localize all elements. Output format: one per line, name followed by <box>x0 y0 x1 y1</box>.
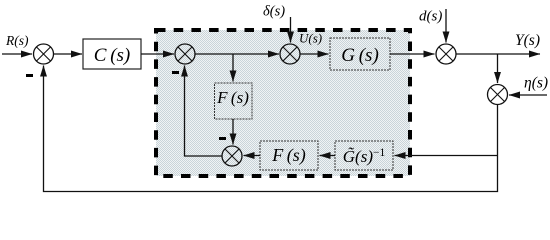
summing junction S4 <box>436 44 456 64</box>
wire F(s) bottom into S6 <box>244 155 261 157</box>
svg-text:F (s): F (s) <box>271 145 306 166</box>
wire G(s) to summing junction S4 <box>390 53 435 55</box>
wire delta(s) into summing junction S3 <box>290 17 292 43</box>
svg-text:F (s): F (s) <box>216 88 249 107</box>
summing junction S1 <box>34 44 54 64</box>
block F(s) bottom <box>260 141 318 170</box>
label delta(s) <box>263 4 285 20</box>
svg-text:R(s): R(s) <box>5 33 29 48</box>
block Gtilde(s)^-1 <box>335 141 393 170</box>
svg-text:G (s): G (s) <box>341 45 379 66</box>
label d(s) <box>419 9 442 25</box>
wire eta(s) into summing junction S5 <box>509 94 547 96</box>
wire F(s) middle down to summing junction S6 <box>232 119 234 145</box>
svg-text:δ(s): δ(s) <box>263 4 285 20</box>
wire S3 to block G(s) <box>300 53 329 55</box>
wire branch down to block F(s) middle <box>232 54 234 82</box>
svg-text:Y(s): Y(s) <box>515 32 540 49</box>
wire S1 to block C(s) <box>54 53 83 55</box>
svg-text:η(s): η(s) <box>524 75 548 92</box>
wire branch from feedback vertical into Gtilde block <box>395 155 498 157</box>
label Y(s) <box>515 32 540 49</box>
svg-text:d(s): d(s) <box>419 9 442 25</box>
wire d(s) into summing junction S4 <box>445 9 447 43</box>
wire R(s) input to summing junction S1 <box>2 53 32 55</box>
wire Gtilde into F(s) bottom <box>320 155 336 157</box>
summing junction S2 <box>175 44 195 64</box>
label U(s) <box>299 31 322 46</box>
minus sign at S1 <box>26 74 33 77</box>
label R(s) <box>5 33 29 48</box>
wire S2 to summing junction S3 <box>195 53 279 55</box>
block C(s) <box>83 39 141 69</box>
wire S4 to output Y(s) <box>456 53 540 55</box>
block G(s) <box>330 38 390 70</box>
summing junction S6 <box>222 146 242 166</box>
wire branch down to summing junction S5 <box>497 54 499 83</box>
wire S6 output left and up into S2 <box>185 66 223 157</box>
wire S5 down, feedback bottom run, and up into S1 <box>44 66 498 192</box>
dashed box (inner-loop / IMC region) <box>156 30 410 176</box>
block F(s) middle <box>215 83 253 119</box>
label eta(s) <box>524 75 548 92</box>
minus sign at S2 <box>172 71 179 74</box>
svg-text:C (s): C (s) <box>94 45 131 66</box>
summing junction S3 <box>280 44 300 64</box>
svg-text:U(s): U(s) <box>299 31 322 46</box>
wire C(s) to summing junction S2 <box>141 53 174 55</box>
summing junction S5 <box>488 85 508 105</box>
minus sign at S6 <box>219 137 226 140</box>
